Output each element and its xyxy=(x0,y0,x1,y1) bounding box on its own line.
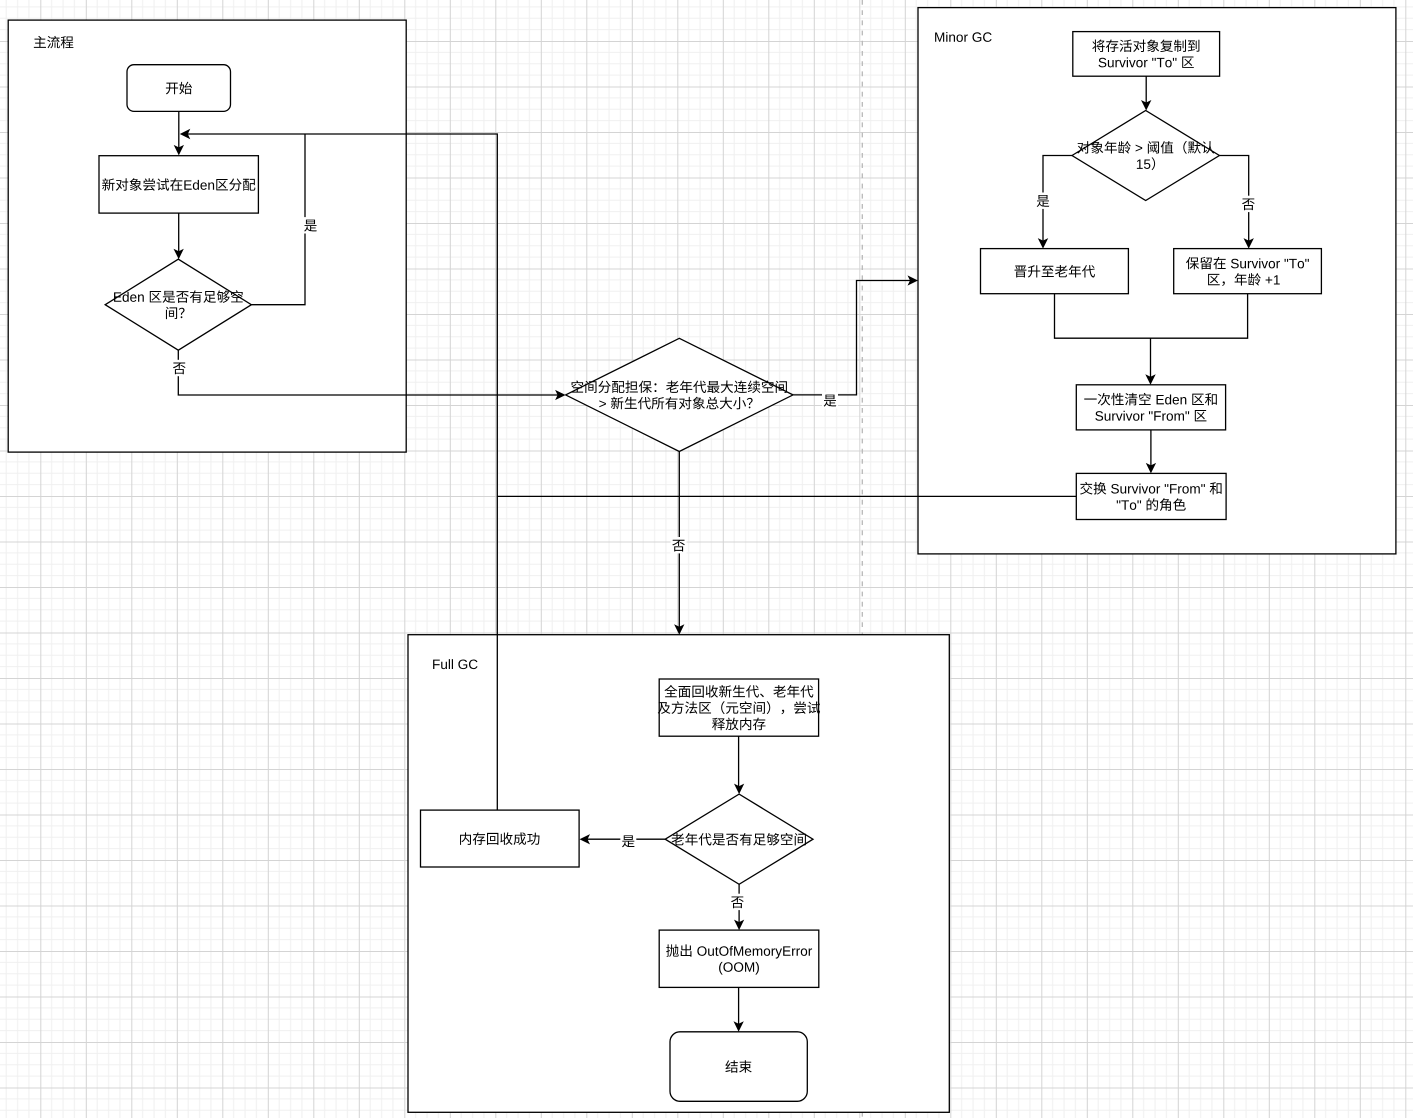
text: 全面回收 xyxy=(664,685,677,697)
wire: 保留在 Survivor -> merge xyxy=(1151,294,1248,339)
wire: 对象年龄 是 branch -> 晋升至老年代 xyxy=(1043,156,1072,243)
text: 抛出 OutOfMemoryError xyxy=(666,944,679,957)
container: Full GC xyxy=(408,635,949,1113)
edge label: 是 (对象年龄) xyxy=(1035,193,1051,209)
wire: Eden diamond 是 branch (loop back) xyxy=(251,134,305,305)
node: 内存回收成功 xyxy=(421,810,580,867)
wire: 开始 -> 新对象尝试在Eden区分配 xyxy=(178,111,180,149)
wire: 老年代 diamond 否 branch -> 抛出 OOM xyxy=(738,884,740,924)
text: 新对象尝试在Eden区分配 xyxy=(102,178,114,191)
node: 将存活对象复制到 Survivor To 区 xyxy=(1073,32,1220,77)
wire: 空间分配担保 是 branch -> Minor GC container xyxy=(793,281,912,395)
node: 抛出 OutOfMemoryError (OOM) xyxy=(659,930,819,987)
node: 对象年龄 > 阈值 diamond xyxy=(1072,111,1219,201)
edge label: 否 (老年代) xyxy=(729,894,745,910)
wire: 交换 Survivor -> merge into loop-back line xyxy=(497,495,1076,497)
node: Eden 区是否有足够空间? diamond xyxy=(105,259,251,350)
label: 主流程 xyxy=(34,36,46,48)
node: 开始 (start) xyxy=(127,65,231,112)
node: 新对象尝试在Eden区分配 xyxy=(99,156,258,213)
text: 晋升至老年代 xyxy=(1015,266,1027,278)
wire: 将存活对象复制到 -> 对象年龄 diamond xyxy=(1145,76,1147,104)
text: 开始 xyxy=(166,83,178,95)
wire: Eden diamond 否 branch -> 空间分配担保 diamond xyxy=(178,350,559,395)
edge label: 是 (老年代) xyxy=(620,833,636,849)
label: Minor GC xyxy=(935,32,944,41)
wire: 新对象尝试在Eden区分配 -> Eden diamond xyxy=(178,213,180,253)
text: 结束 xyxy=(725,1060,737,1073)
wire: 对象年龄 否 branch -> 保留在 Survivor xyxy=(1219,156,1248,243)
wire: 全面回收 -> 老年代 diamond xyxy=(738,736,740,788)
edge label: 否 (对象年龄) xyxy=(1240,196,1256,212)
wire: 空间分配担保 否 branch -> Full GC container xyxy=(678,452,680,629)
edge label: 是 (空间分配担保) xyxy=(822,392,838,408)
text: 交换 Survivor xyxy=(1080,482,1092,495)
node: 结束 (end) xyxy=(670,1032,807,1102)
wire: 一次性清空 -> 交换 Survivor xyxy=(1150,430,1152,468)
text: 保留在 Survivor xyxy=(1186,257,1199,269)
wire: 晋升至老年代 -> merge xyxy=(1055,294,1151,339)
node: 保留在 Survivor To 区，年龄 +1 xyxy=(1174,249,1322,294)
wire: merge -> 一次性清空 xyxy=(1150,338,1152,379)
container: 主流程 (main flow) xyxy=(8,20,406,452)
label: Full GC xyxy=(433,660,440,669)
wire: 老年代 diamond 是 branch -> 内存回收成功 xyxy=(585,838,665,840)
text: Eden 区是否有足够空间? xyxy=(114,292,121,301)
node: 晋升至老年代 xyxy=(981,249,1129,294)
wire: 内存回收成功 loop back (up & left into main line) xyxy=(186,134,498,810)
node: 交换 Survivor From 和 To 的角色 xyxy=(1076,473,1226,519)
wire: 抛出 OOM -> 结束 xyxy=(738,987,740,1026)
container: Minor GC xyxy=(918,8,1396,554)
text: 一次性清空 xyxy=(1084,398,1096,399)
node: 老年代是否有足够空间 diamond xyxy=(665,794,813,884)
text: 空间分配担保 xyxy=(572,380,584,392)
edge label: 否 (Eden) xyxy=(171,360,187,376)
edge label: 是 (Eden loop) xyxy=(303,217,319,233)
edge label: 否 (空间分配担保) xyxy=(671,537,687,553)
node: 全面回收新生代、老年代及方法区 xyxy=(659,679,818,736)
text: 将存活对象复制到 xyxy=(1092,40,1104,52)
text: 内存回收成功 xyxy=(460,832,471,845)
text: 对象年龄 > 阈值 xyxy=(1077,141,1089,153)
node: 空间分配担保 diamond xyxy=(566,338,793,451)
page boundary dashed line xyxy=(861,0,863,1118)
text: 老年代是否有足够空间 xyxy=(672,833,684,845)
node: 一次性清空 Eden 区和 Survivor From 区 xyxy=(1076,385,1225,430)
